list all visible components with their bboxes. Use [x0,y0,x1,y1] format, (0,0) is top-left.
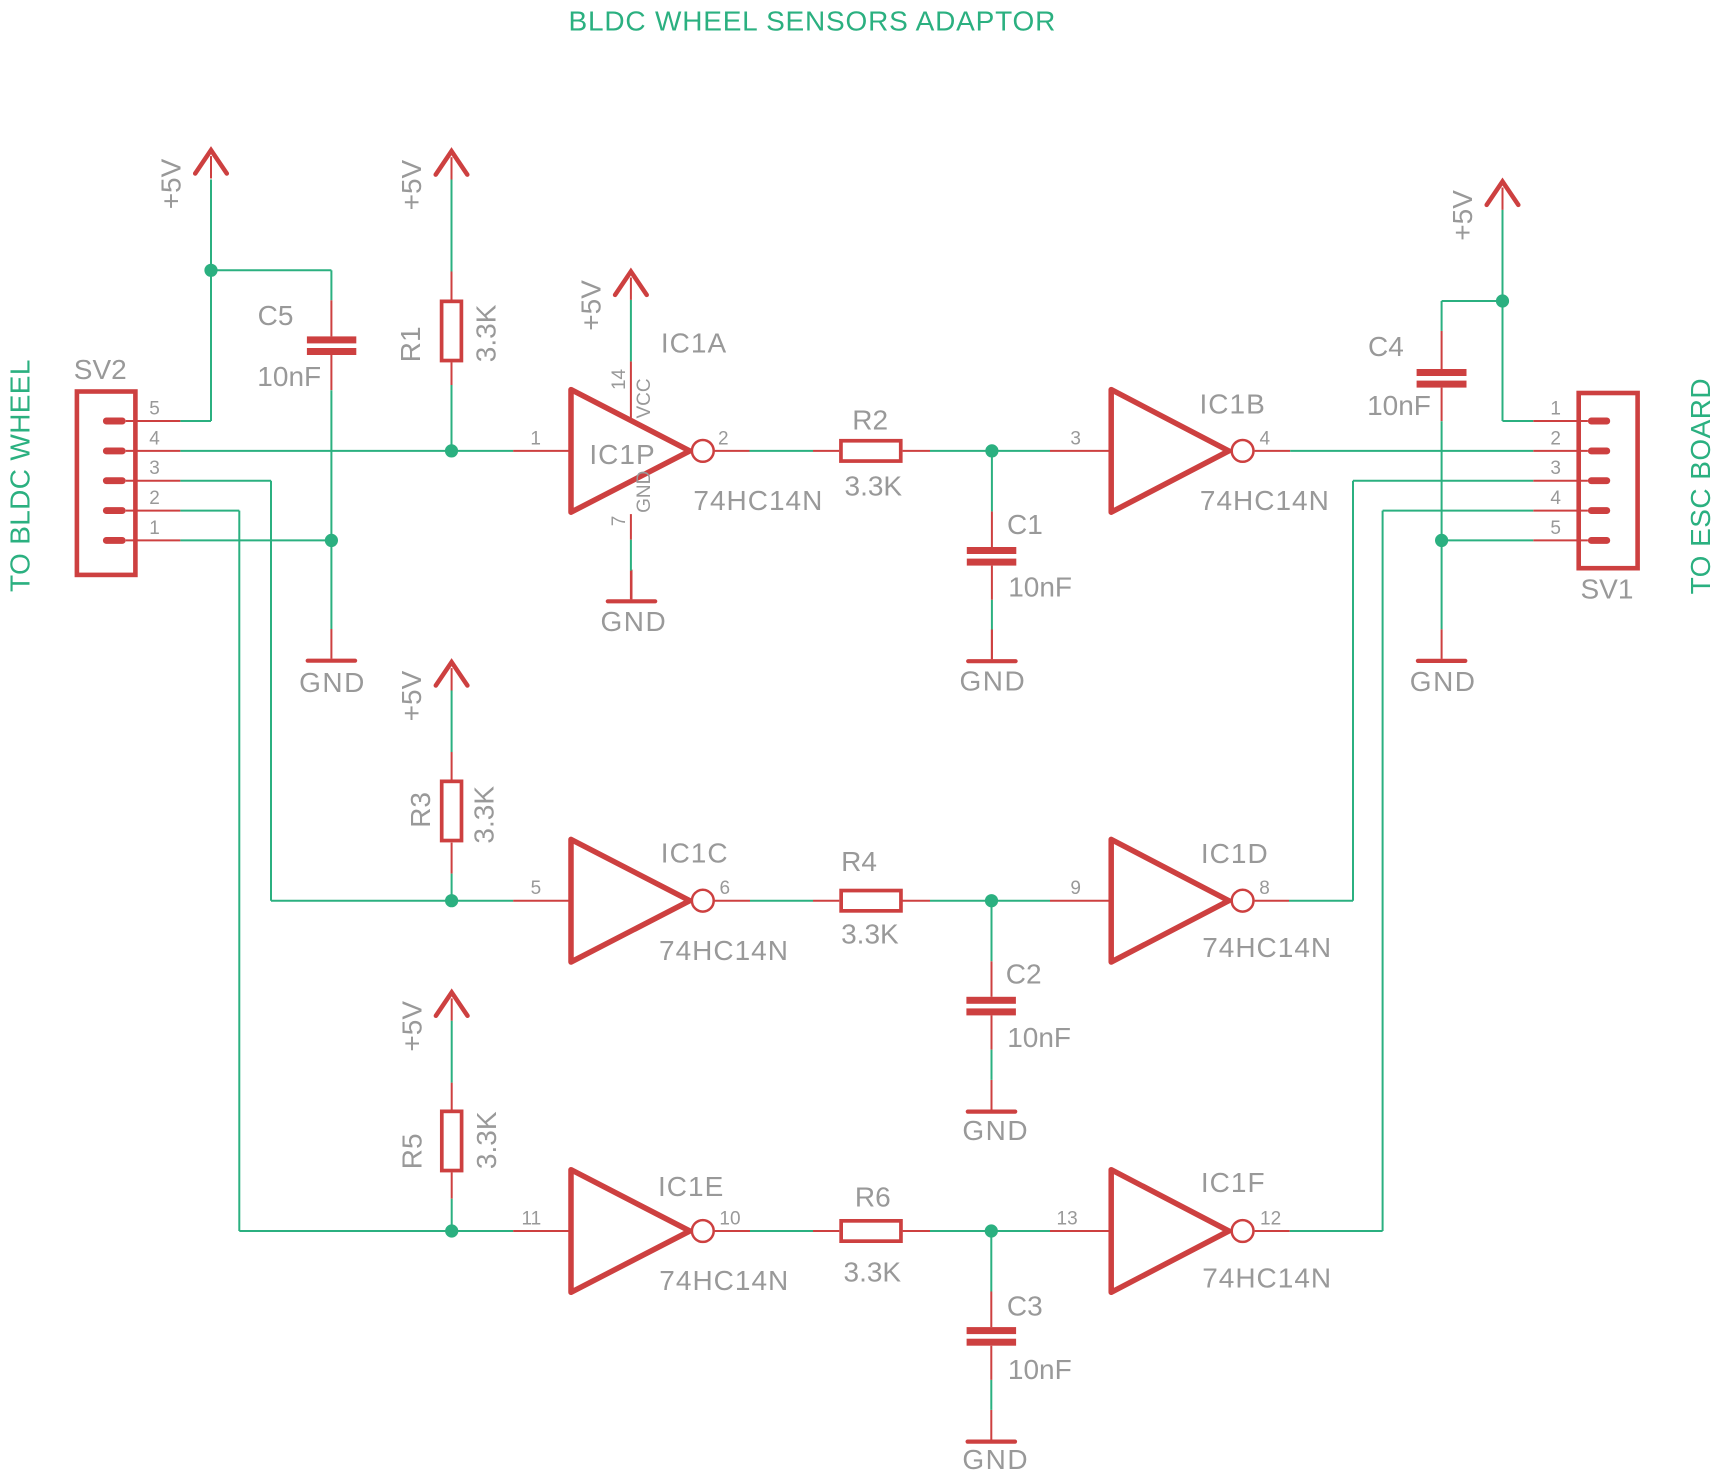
wire C5 top vertical [330,270,332,300]
wire IC1 GND pin vertical [630,540,632,571]
svg-text:3: 3 [149,458,160,479]
svg-text:4: 4 [1550,488,1561,509]
SV2 +5V supply arrow [195,150,227,173]
R6 right pin [903,1230,930,1232]
svg-text:9: 9 [1070,878,1081,899]
svg-text:74HC14N: 74HC14N [659,1265,789,1296]
IC1A output bubble [692,440,714,462]
C2 bottom pin [991,1015,993,1049]
wire +5V riser at SV1 vertical [1502,210,1504,421]
capacitor C5 plates [307,336,356,355]
R5 bottom pin [451,1172,453,1198]
svg-text:2: 2 [1550,428,1561,449]
wire SV2 pin2 vertical drop [238,511,240,1231]
svg-text:10nF: 10nF [1007,1022,1071,1053]
capacitor C2 plates [966,997,1016,1016]
C1 top pin [991,511,993,547]
SV1 pin 1 stub wire [1533,420,1588,422]
IC1B input pin wire [1050,450,1111,452]
junction C2/row2 [985,894,998,907]
IC1B output bubble [1232,440,1254,462]
svg-text:IC1P: IC1P [589,439,655,470]
C5 bottom pin [330,355,332,390]
svg-text:1: 1 [1550,399,1561,420]
wire C4 top vertical [1441,301,1443,331]
svg-text:12: 12 [1260,1209,1281,1230]
svg-text:74HC14N: 74HC14N [659,935,789,966]
wire R5 top to +5V [451,1021,453,1083]
GND symbol at C2 bar [968,1109,1015,1113]
resistor R4 body [841,891,901,911]
svg-text:VCC: VCC [634,378,655,418]
svg-text:74HC14N: 74HC14N [1202,932,1332,963]
R2 left pin [813,450,839,452]
SV1 pin 2 contact bar [1588,447,1610,454]
C1 GND stem upper [991,630,993,660]
SV2 pin 2 contact bar [103,507,126,514]
IC1C input pin wire [513,900,571,902]
svg-text:C3: C3 [1007,1291,1043,1322]
GND symbol at IC1P pin 7 stem [631,570,633,600]
svg-text:TO ESC BOARD: TO ESC BOARD [1685,378,1716,594]
svg-text:C2: C2 [1006,959,1042,990]
SV2 pin 3 contact bar [103,477,126,484]
wire IC1F out vertical riser [1382,511,1384,1231]
IC1F output bubble [1232,1220,1254,1242]
junction +5V/C4 at SV1 [1496,294,1509,307]
IC1D output bubble [1232,890,1254,912]
GND symbol at IC1P pin 7 bar [608,599,655,603]
SV2 pin 4 stub wire [126,450,181,452]
SV2 pin 1 stub wire [126,539,181,541]
R4 right pin [903,900,931,902]
svg-text:3.3K: 3.3K [471,304,502,362]
junction C3/row3 [985,1224,998,1237]
SV2 +5V supply pin stem [210,156,212,178]
svg-text:3.3K: 3.3K [471,1111,502,1169]
inverter IC1A triangle [571,390,690,513]
R4 left pin [813,900,839,902]
wire R1 bottom to row1 [451,385,453,451]
svg-text:C4: C4 [1368,331,1404,362]
C1 bottom pin [991,566,993,600]
wire R1 top to +5V [451,180,453,272]
svg-text:10nF: 10nF [1008,571,1072,602]
resistor R6 body [841,1221,901,1241]
connector SV2 body [77,392,135,575]
SV1 pin 1 contact bar [1588,418,1610,425]
svg-text:GND: GND [962,1115,1029,1146]
svg-text:GND: GND [299,667,366,698]
wire net row3 IC1E out to R6 [750,1230,813,1232]
wire +5V riser at SV2 vertical [210,180,212,422]
wire SV1 pin1 horizontal [1503,420,1534,422]
svg-text:5: 5 [1550,518,1561,539]
svg-text:+5V: +5V [396,159,427,210]
IC1P VCC pin 14 wire [630,361,632,420]
svg-text:3: 3 [1550,458,1561,479]
C2 top pin [991,961,993,997]
svg-text:C5: C5 [258,300,294,331]
svg-text:IC1C: IC1C [661,838,729,869]
svg-text:GND: GND [1410,666,1477,697]
inverter IC1E triangle [571,1170,690,1293]
C4 bottom pin [1441,388,1443,422]
junction C4/SV1 pin5/GND [1435,534,1448,547]
svg-text:5: 5 [149,399,160,420]
SV2 pin 1 contact bar [103,537,126,544]
wire net row1 SV2.4 to IC1A input [180,450,513,452]
svg-text:BLDC WHEEL SENSORS ADAPTOR: BLDC WHEEL SENSORS ADAPTOR [569,5,1057,36]
R3 bottom pin [451,843,453,874]
junction R3/row2 [445,894,458,907]
IC1B output pin wire [1255,450,1291,452]
wire SV2 pin5 to +5V riser horizontal [180,420,211,422]
wire net row1 IC1A out to R2 [750,450,814,452]
SV2 pin 5 stub wire [126,420,181,422]
SV1 pin 4 contact bar [1588,507,1610,514]
svg-text:IC1A: IC1A [661,328,727,359]
wire IC1D out vertical riser [1352,481,1354,901]
R3 +5V supply arrow [436,662,468,685]
svg-text:2: 2 [718,428,729,449]
svg-text:3.3K: 3.3K [469,786,500,844]
svg-text:10nF: 10nF [1367,390,1431,421]
wire C4 bottom vertical [1441,421,1443,540]
inverter IC1C triangle [571,839,690,962]
C4 top pin [1441,331,1443,369]
GND symbol at C1 bar [968,659,1015,663]
wire R3 top to +5V [451,691,453,753]
SV1 +5V supply pin stem [1502,188,1504,210]
SV1 pin 3 stub wire [1533,480,1588,482]
C3 bottom pin [990,1346,992,1380]
wire C2 top vertical [991,901,993,962]
wire SV2 pin2 horizontal [180,510,239,512]
junction R1/row1 [445,444,458,457]
wire to SV1 pin4 horizontal [1383,510,1534,512]
capacitor C4 plates [1417,369,1467,388]
junction C1/row1 [985,444,998,457]
GND symbol at SV2/C5 net stem [330,629,332,659]
wire net row2 R4 to IC1D input [930,900,1050,902]
wire R5 bottom to row3 [451,1199,453,1231]
svg-text:GND: GND [960,666,1027,697]
svg-text:TO BLDC WHEEL: TO BLDC WHEEL [4,359,35,592]
wire R3 bottom to row2 [451,874,453,901]
GND symbol at SV2/C5 net bar [308,659,355,663]
svg-text:10: 10 [719,1209,740,1230]
IC1F output pin wire [1255,1230,1290,1232]
svg-text:1: 1 [530,428,541,449]
IC1E input pin wire [513,1230,571,1232]
SV1 +5V supply arrow [1487,182,1519,205]
junction SV2 pin1/C5/GND [325,534,338,547]
wire net row3 IC1F out horizontal [1290,1230,1383,1232]
inverter IC1F triangle [1111,1170,1229,1293]
svg-text:1: 1 [149,518,160,539]
resistor R2 body [841,441,901,461]
wire SV2 pin3 vertical drop [270,481,272,901]
svg-text:IC1B: IC1B [1200,388,1266,419]
inverter IC1D triangle [1111,839,1229,962]
svg-text:3.3K: 3.3K [844,1256,902,1287]
svg-text:3: 3 [1070,428,1081,449]
svg-text:+5V: +5V [156,158,187,209]
connector SV1 body [1579,393,1638,568]
GND symbol at SV1 stem [1441,629,1443,659]
capacitor C3 plates [967,1327,1017,1346]
svg-text:R5: R5 [397,1133,428,1169]
IC1C output pin wire [715,900,750,902]
wire C1 top vertical [991,451,993,512]
svg-text:SV1: SV1 [1581,574,1634,605]
wire C2 bottom vertical [991,1050,993,1080]
svg-text:13: 13 [1057,1209,1078,1230]
svg-text:R4: R4 [841,846,877,877]
inverter IC1B triangle [1111,390,1229,513]
svg-text:10nF: 10nF [257,361,321,392]
R5 +5V supply arrow [436,992,468,1015]
svg-text:74HC14N: 74HC14N [693,485,823,516]
SV2 pin 3 stub wire [126,480,181,482]
wire SV1 pin5 horizontal [1442,539,1534,541]
wire SV2 pin3 horizontal [180,480,271,482]
svg-text:R3: R3 [405,792,436,828]
SV2 pin 4 contact bar [103,447,126,454]
R5 +5V supply pin stem [451,998,453,1020]
GND symbol at C2 stem [991,1080,993,1110]
R3 top pin [451,752,453,780]
IC1C output bubble [692,890,714,912]
svg-text:74HC14N: 74HC14N [1202,1263,1332,1294]
R1 +5V supply pin stem [451,157,453,179]
wire net row2 IC1C out to R4 [750,900,813,902]
C3 top pin [990,1292,992,1328]
IC1E output bubble [692,1220,714,1242]
wire net row2 pin3 branch to IC1C input [271,900,513,902]
C5 top pin [330,300,332,336]
svg-text:GND: GND [601,606,668,637]
GND symbol at SV1 bar [1418,659,1465,663]
SV2 pin 5 contact bar [103,418,126,425]
svg-text:IC1F: IC1F [1201,1167,1266,1198]
svg-text:GND: GND [634,471,655,513]
svg-text:5: 5 [531,878,542,899]
IC1A input pin wire [513,450,571,452]
IC1D input pin wire [1050,900,1111,902]
resistor R1 body [442,301,462,360]
wire net row1 IC1B out to SV1.2 [1290,450,1533,452]
svg-text:2: 2 [149,488,160,509]
R2 right pin [903,450,930,452]
GND symbol at C3 bar [968,1439,1015,1443]
svg-text:4: 4 [149,428,160,449]
IC1A output pin wire [715,450,750,452]
IC1 VCC +5V supply pin stem [630,278,632,300]
IC1D output pin wire [1255,900,1289,902]
svg-text:3.3K: 3.3K [845,471,903,502]
SV1 pin 3 contact bar [1588,477,1610,484]
wire C3 bottom vertical [990,1380,992,1410]
R1 bottom pin [451,362,453,385]
svg-text:7: 7 [609,516,630,527]
svg-text:10nF: 10nF [1008,1354,1072,1385]
GND symbol at C1 stem [991,630,993,660]
wire SV1 GND vertical [1441,540,1443,629]
R1 +5V supply arrow [436,151,468,174]
svg-text:IC1D: IC1D [1201,838,1269,869]
svg-text:+5V: +5V [576,280,607,331]
junction +5V/C5 branch [204,264,217,277]
wire net row1 R2 to IC1B input [930,450,1050,452]
resistor R5 body [442,1111,462,1170]
svg-text:6: 6 [720,878,731,899]
junction R5/row3 [445,1224,458,1237]
SV2 pin 2 stub wire [126,510,181,512]
wire C3 top vertical [990,1231,992,1292]
R6 left pin [813,1230,839,1232]
R1 top pin [451,272,453,300]
svg-text:8: 8 [1259,878,1270,899]
SV1 pin 5 stub wire [1533,539,1588,541]
resistor R3 body [442,781,462,840]
GND symbol at C3 stem [990,1410,992,1440]
svg-text:11: 11 [521,1209,541,1230]
IC1P GND pin 7 wire [630,514,632,540]
wire +5V branch to C4 horizontal [1442,300,1503,302]
svg-text:+5V: +5V [396,670,427,721]
SV1 pin 4 stub wire [1533,510,1588,512]
svg-text:+5V: +5V [396,1001,427,1052]
capacitor C1 plates [967,547,1017,566]
wire C5 bottom to pin1 junction vertical [330,390,332,540]
wire to SV1 pin3 horizontal [1353,480,1533,482]
wire net row3 pin2 branch to IC1E input [239,1230,513,1232]
wire pin1 junction to GND vertical [330,540,332,629]
SV1 pin 5 contact bar [1588,537,1610,544]
svg-text:C1: C1 [1007,509,1043,540]
svg-text:SV2: SV2 [74,354,127,385]
svg-text:R1: R1 [395,326,426,362]
svg-text:GND: GND [962,1444,1029,1475]
wire +5V branch to C5 horizontal [211,269,331,271]
svg-text:R2: R2 [852,404,888,435]
wire net row3 R6 to IC1F input [930,1230,1050,1232]
IC1P GND stem [630,571,632,600]
svg-text:14: 14 [609,368,630,390]
svg-text:74HC14N: 74HC14N [1200,485,1330,516]
wire IC1 VCC vertical [630,300,632,362]
IC1 VCC +5V supply arrow [615,272,647,295]
svg-text:R6: R6 [855,1181,891,1212]
svg-text:4: 4 [1260,428,1271,449]
wire C1 bottom vertical [991,600,993,630]
svg-text:+5V: +5V [1447,190,1478,241]
svg-text:IC1E: IC1E [658,1171,724,1202]
wire SV2 pin1 horizontal [180,539,331,541]
IC1F input pin wire [1050,1230,1111,1232]
SV1 pin 2 stub wire [1533,450,1588,452]
IC1E output pin wire [715,1230,750,1232]
R3 +5V supply pin stem [451,668,453,690]
R5 top pin [451,1083,453,1110]
svg-text:3.3K: 3.3K [841,918,899,949]
wire net row2 IC1D out horizontal [1289,900,1353,902]
